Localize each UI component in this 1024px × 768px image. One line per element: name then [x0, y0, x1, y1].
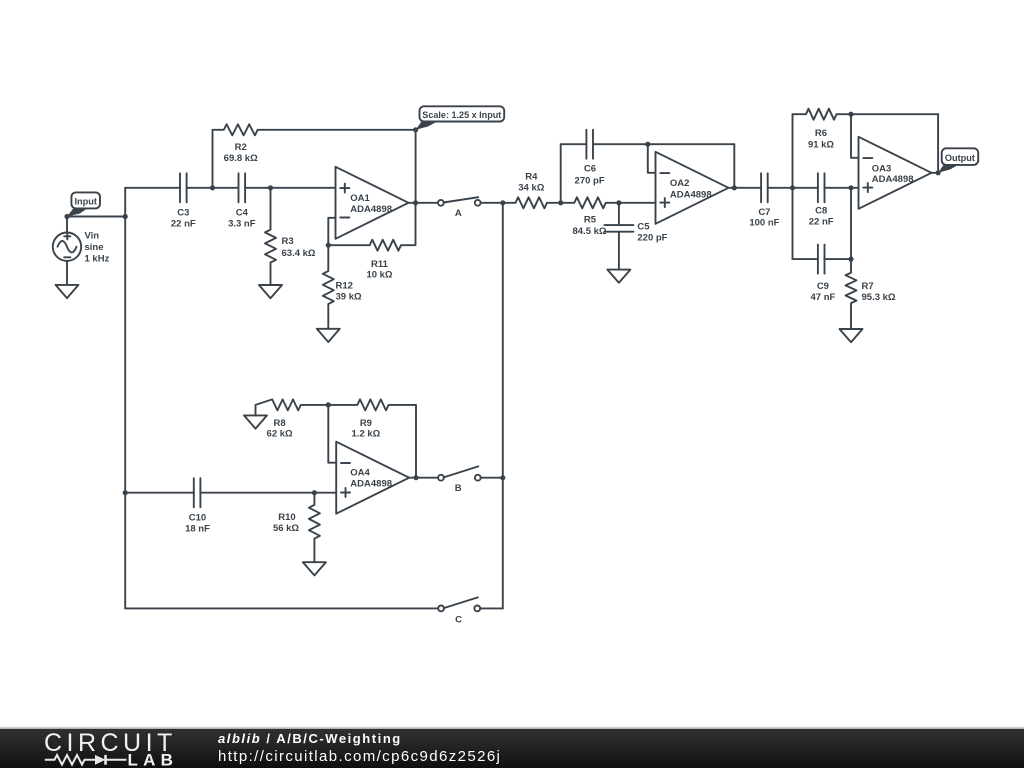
- svg-text:OA1: OA1: [350, 193, 370, 204]
- ground below R3: [259, 285, 282, 298]
- resistor R5 84.5 k with leads: [561, 197, 619, 208]
- footer title text: [218, 731, 818, 745]
- svg-text:C7: C7: [758, 207, 770, 218]
- wire R5 node to OA2 noninverting input: [619, 202, 656, 204]
- svg-text:OA2: OA2: [670, 178, 690, 189]
- svg-text:69.8 kΩ: 69.8 kΩ: [224, 153, 258, 164]
- svg-text:1 kHz: 1 kHz: [85, 253, 110, 264]
- junction C6 row / OA2 inverting: [645, 142, 650, 147]
- junction R4/R5/C6: [558, 200, 563, 205]
- wire Vin top lead: [66, 217, 68, 233]
- svg-text:63.4 kΩ: 63.4 kΩ: [282, 248, 316, 259]
- wire switch A to selector bus: [481, 202, 503, 204]
- svg-text:R12: R12: [336, 280, 353, 291]
- capacitor C8 22 nF: [817, 173, 819, 202]
- wire feedback vertical to OA3 output node: [937, 114, 939, 173]
- footer bar: [0, 729, 1024, 768]
- resistor R10 56 k with leads: [309, 493, 320, 563]
- switch A (closed position): [438, 197, 481, 219]
- svg-text:C5: C5: [637, 221, 650, 232]
- ground below R10: [303, 562, 326, 575]
- junction OA4 output node: [413, 475, 418, 480]
- junction R8/R9/OA4 inverting: [326, 402, 331, 407]
- svg-text:C9: C9: [817, 281, 829, 292]
- resistor R9 1.2 k with feedback wire: [328, 399, 416, 477]
- svg-text:22 nF: 22 nF: [171, 219, 196, 230]
- svg-text:18 nF: 18 nF: [185, 524, 210, 535]
- wire OA3 output stub: [932, 172, 939, 174]
- svg-text:R5: R5: [584, 215, 597, 226]
- op-amp OA1 input markers: [340, 184, 349, 218]
- wire left bus to C10: [125, 492, 194, 494]
- junction input/left bus: [123, 214, 128, 219]
- op-amp OA2 ADA4898: [656, 152, 729, 224]
- wire C3 to C4: [187, 187, 239, 189]
- resistor R4 34 k with leads: [503, 197, 561, 208]
- svg-text:Scale: 1.25 x Input: Scale: 1.25 x Input: [422, 110, 501, 120]
- svg-text:ADA4898: ADA4898: [350, 204, 392, 215]
- wire left vertical bus x=125: [124, 188, 126, 609]
- wire left vertical to C3 left plate: [125, 187, 180, 189]
- junction OA3 output node: [936, 170, 941, 175]
- wire C4 to OA1 noninverting input: [245, 187, 335, 189]
- wire C8 to OA3 noninverting input: [825, 187, 859, 189]
- wire C6 to OA2 output feedback: [593, 143, 734, 145]
- svg-text:34 kΩ: 34 kΩ: [518, 182, 544, 193]
- op-amp OA1 ADA4898: [336, 167, 409, 239]
- junction C7/C8/vertical: [790, 185, 795, 190]
- svg-text:47 nF: 47 nF: [810, 292, 835, 303]
- ground left of R8: [244, 415, 267, 428]
- capacitor C5 220 pF: [604, 224, 633, 226]
- wire right block left vertical x=792: [792, 114, 794, 259]
- capacitor C3 22 nF: [179, 173, 181, 202]
- voltage source Vin sine: [53, 233, 81, 261]
- svg-text:220 pF: 220 pF: [637, 233, 667, 244]
- ground below C5: [607, 270, 630, 283]
- svg-text:R7: R7: [862, 281, 874, 292]
- wire OA2 inverting input stub: [648, 144, 656, 173]
- svg-text:R8: R8: [274, 418, 286, 429]
- wire switch B to selector bus: [481, 477, 503, 479]
- flag Output: [938, 148, 978, 173]
- wire to C9 left plate: [793, 258, 818, 260]
- svg-text:R10: R10: [278, 512, 295, 523]
- junction switch B / selector bus: [500, 475, 505, 480]
- wire vertical scale-node to OA1 output node: [415, 130, 417, 203]
- switch C (open): [438, 597, 480, 625]
- resistor R7 95.3 k with leads: [846, 259, 857, 329]
- wire C8 node down to C9 node: [850, 188, 852, 259]
- wire C10 to OA4 noninverting input: [200, 492, 336, 494]
- svg-text:R6: R6: [815, 128, 827, 139]
- svg-text:C6: C6: [584, 164, 596, 175]
- junction switch A / selector bus: [500, 200, 505, 205]
- svg-text:R11: R11: [371, 259, 389, 270]
- svg-text:sine: sine: [85, 242, 104, 253]
- svg-text:A: A: [455, 208, 462, 219]
- svg-text:C8: C8: [815, 206, 827, 217]
- wire C9 to R7 node: [825, 258, 852, 260]
- wire OA3 inverting input stub: [851, 114, 859, 158]
- footer url text: [218, 748, 818, 764]
- svg-text:ADA4898: ADA4898: [350, 479, 392, 490]
- wire OA2 output to C7: [729, 187, 762, 189]
- svg-text:R4: R4: [525, 172, 538, 183]
- svg-text:10 kΩ: 10 kΩ: [366, 270, 392, 281]
- svg-text:39 kΩ: 39 kΩ: [336, 292, 362, 303]
- resistor R6 91 k with leads: [793, 109, 852, 120]
- wire bottom row to switch C: [125, 607, 438, 609]
- wire C5 bottom lead: [618, 232, 620, 270]
- svg-text:ADA4898: ADA4898: [670, 189, 712, 200]
- resistor R3 63.4 k with leads: [265, 188, 276, 285]
- wire OA1 inverting input stub: [328, 218, 335, 245]
- svg-text:22 nF: 22 nF: [809, 216, 834, 227]
- ground below R12: [317, 329, 340, 342]
- wire C6 branch vertical: [560, 144, 562, 203]
- svg-text:270 pF: 270 pF: [575, 175, 605, 186]
- op-amp OA4 ADA4898: [336, 442, 409, 514]
- junction C9 / R7: [848, 257, 853, 262]
- wire input node to left vertical: [67, 216, 125, 218]
- junction R5/C5: [616, 200, 621, 205]
- op-amp OA2 input markers: [660, 173, 669, 207]
- junction C8 / OA3 noninverting: [848, 185, 853, 190]
- svg-text:Vin: Vin: [85, 231, 100, 242]
- wire C7 to C8 via node: [768, 187, 818, 189]
- wire Vin bottom lead: [66, 261, 68, 285]
- wire R6 row to output feedback corner: [851, 113, 938, 115]
- junction OA1 output node: [413, 200, 418, 205]
- svg-text:R9: R9: [360, 418, 372, 429]
- wire feedback vertical to OA2 output node: [733, 144, 735, 188]
- svg-text:C10: C10: [189, 513, 206, 524]
- junction left bus/C10 row: [123, 490, 128, 495]
- svg-text:Output: Output: [945, 153, 975, 163]
- resistor R2 69.8 k with leads: [213, 124, 258, 188]
- svg-text:84.5 kΩ: 84.5 kΩ: [572, 226, 606, 237]
- svg-text:C4: C4: [236, 208, 249, 219]
- junction R6 / OA3 inverting: [848, 112, 853, 117]
- wire to C6 left plate: [561, 143, 587, 145]
- svg-text:C: C: [455, 615, 462, 626]
- capacitor C9 47 nF: [817, 245, 819, 274]
- svg-text:Input: Input: [74, 197, 96, 207]
- junction OA1 feedback/R12: [326, 243, 331, 248]
- node input terminal: [64, 214, 69, 219]
- svg-text:ADA4898: ADA4898: [872, 174, 914, 185]
- svg-text:C3: C3: [177, 208, 189, 219]
- op-amp OA4 input markers: [341, 463, 350, 497]
- wire OA1 output to switch A: [409, 202, 439, 204]
- wire C5 top lead: [618, 203, 620, 225]
- wire switch C to selector bus: [480, 607, 503, 609]
- svg-text:95.3 kΩ: 95.3 kΩ: [862, 292, 896, 303]
- svg-text:LAB: LAB: [128, 751, 173, 768]
- svg-text:R3: R3: [282, 236, 294, 247]
- resistor R12 39 k with leads: [323, 245, 334, 329]
- svg-text:B: B: [455, 483, 462, 494]
- wire OA4 inverting input stub: [328, 405, 336, 463]
- capacitor C4 3.3 nF: [238, 173, 240, 202]
- svg-text:OA4: OA4: [350, 468, 370, 479]
- flag Scale: 1.25 x Input: [416, 106, 505, 130]
- capacitor C10 18 nF: [193, 478, 195, 507]
- svg-text:1.2 kΩ: 1.2 kΩ: [352, 428, 381, 439]
- ground below Vin: [56, 285, 79, 298]
- capacitor C7 100 nF: [760, 173, 762, 202]
- op-amp OA3 ADA4898: [859, 137, 932, 209]
- logo resistor-diode glyph: [45, 755, 127, 765]
- flag Input: [67, 192, 100, 216]
- svg-text:62 kΩ: 62 kΩ: [267, 428, 293, 439]
- switch B (open): [438, 466, 481, 494]
- svg-text:R2: R2: [235, 142, 247, 153]
- resistor R11 10 k with feedback wire: [328, 203, 415, 251]
- resistor R8 62 k with leads: [256, 399, 329, 415]
- junction R10 tap: [312, 490, 317, 495]
- junction R3 tap: [268, 185, 273, 190]
- capacitor C6 270 pF: [585, 130, 587, 159]
- junction R2 tap: [210, 185, 215, 190]
- svg-text:100 nF: 100 nF: [749, 218, 779, 229]
- svg-text:91 kΩ: 91 kΩ: [808, 139, 834, 150]
- op-amp OA3 input markers: [863, 158, 872, 192]
- junction OA2 output node: [732, 185, 737, 190]
- wire R2 to scale-node: [258, 129, 416, 131]
- CircuitLab logo: [0, 729, 200, 768]
- svg-text:OA3: OA3: [872, 163, 892, 174]
- wire OA4 output to switch B: [409, 477, 438, 479]
- node scale flag attach: [413, 127, 418, 132]
- svg-text:3.3 nF: 3.3 nF: [228, 219, 256, 230]
- svg-text:56 kΩ: 56 kΩ: [273, 523, 299, 534]
- wire selector vertical bus x=503: [502, 203, 504, 609]
- ground below R7: [840, 329, 863, 342]
